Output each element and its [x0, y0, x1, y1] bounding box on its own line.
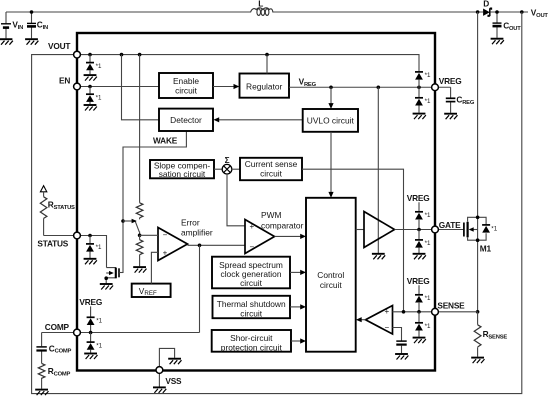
ground for CREG [444, 114, 457, 120]
svg-text:*1: *1 [425, 212, 431, 219]
capacitor CREG [446, 87, 475, 113]
wire VREG rail [289, 86, 451, 88]
svg-text:Control: Control [317, 270, 344, 280]
node sense line cs tap [402, 310, 406, 314]
pin EN [74, 83, 81, 90]
resistor divider lower [136, 235, 143, 266]
svg-text:*1: *1 [425, 323, 431, 330]
svg-text:VOUT: VOUT [48, 41, 70, 51]
wire COMP net [42, 332, 200, 334]
svg-text:*1: *1 [425, 240, 431, 247]
node rail regulator tap [265, 53, 269, 57]
svg-text:circuit: circuit [240, 308, 263, 318]
wire PWM output to control arrow [275, 234, 307, 239]
svg-text:Σ: Σ [225, 155, 230, 165]
node diode-L junction [476, 10, 480, 14]
wire error amp output to PWM minus [188, 244, 246, 246]
node rail VOUT esd tap [88, 53, 92, 57]
ground for SENSE esd [413, 338, 426, 344]
svg-text:*1: *1 [96, 244, 102, 251]
svg-text:RSTATUS: RSTATUS [48, 199, 75, 210]
wire UVLO to control arrow [328, 132, 333, 198]
wire current sense to SENSE pin line [302, 169, 404, 312]
svg-text:COUT: COUT [503, 20, 521, 31]
wire STATUS net to fet drain [44, 236, 107, 268]
ground for COMP esd [84, 354, 97, 360]
node VREG driver tap [377, 85, 381, 89]
svg-text:*1: *1 [96, 342, 102, 349]
wire sigma to PWM plus input [227, 174, 245, 226]
node VREG clamp tap [417, 85, 421, 89]
pin STATUS [74, 232, 81, 239]
svg-text:VREG: VREG [407, 193, 430, 203]
diode STATUS esd with *1 [86, 236, 102, 259]
resistor RCOMP [38, 363, 70, 388]
svg-text:circuit: circuit [175, 86, 198, 96]
wire VREG to UVLO arrow [328, 87, 333, 109]
svg-text:*1: *1 [425, 98, 431, 105]
node COUT junction [495, 10, 499, 14]
node SENSE esd tap [417, 310, 421, 314]
ground for RCOMP [35, 390, 48, 396]
block spread spectrum clock generation circuit [212, 257, 290, 289]
wire divider drop [139, 55, 141, 203]
svg-text:circuit: circuit [260, 169, 283, 179]
svg-text:*1: *1 [96, 63, 102, 70]
capacitor CIN [27, 12, 48, 38]
node M1 source [476, 238, 480, 242]
svg-text:circuit: circuit [240, 278, 263, 288]
diode COMP esd upper with *1 [87, 306, 103, 332]
block control circuit [306, 198, 356, 352]
pin VREG [432, 84, 439, 91]
wire top input rail [6, 11, 528, 13]
capacitor COUT [493, 12, 522, 38]
transistor M1 [435, 217, 492, 253]
ground for STATUS esd [84, 259, 97, 265]
svg-text:Regulator: Regulator [246, 82, 283, 92]
svg-text:*1: *1 [491, 225, 497, 232]
ground for RSENSE [471, 358, 484, 364]
wire WAKE switch control arrow [123, 220, 132, 222]
diode VOUT esd with *1 [86, 55, 102, 75]
pin VSS [156, 367, 163, 374]
op-amp gate driver [364, 212, 395, 248]
svg-text:UVLO circuit: UVLO circuit [307, 115, 355, 125]
svg-text:VSS: VSS [165, 376, 182, 386]
ground for CIN [25, 39, 38, 45]
ground for divider [133, 267, 146, 273]
svg-text:WAKE: WAKE [153, 136, 178, 146]
node rail detector tap [120, 53, 124, 57]
block detector [159, 109, 213, 131]
ground for EN esd [84, 105, 97, 111]
inductor L [251, 0, 273, 15]
IC package outline [77, 33, 435, 371]
svg-text:GATE: GATE [439, 220, 461, 230]
svg-text:*1: *1 [425, 295, 431, 302]
node VREG UVLO tap [329, 85, 333, 89]
op-amp PWM comparator [245, 210, 304, 253]
node M1 drain [476, 216, 480, 220]
node RSENSE junction [476, 310, 480, 314]
ground for GATE esd [413, 254, 426, 259]
node STATUS esd tap [88, 234, 92, 238]
node status fet source [104, 276, 108, 280]
svg-text:+: + [163, 249, 168, 258]
node sigma summer [222, 155, 232, 174]
diode EN esd with *1 [86, 87, 102, 105]
diode VREG esd lower with *1 [415, 87, 431, 113]
diode GATE esd lower with *1 [415, 230, 431, 254]
diode COMP esd lower with *1 [87, 333, 103, 353]
svg-text:EN: EN [59, 76, 70, 86]
wire regulator to VOUT rail [266, 55, 268, 74]
wire control to driver [356, 229, 364, 231]
ground for VSS internal [168, 359, 181, 365]
wire shor to control arrow [291, 338, 306, 343]
pin SENSE [432, 308, 439, 315]
svg-text:L: L [258, 0, 263, 8]
svg-text:−: − [249, 243, 254, 252]
wire UVLO to detector arrow [213, 117, 302, 122]
op-amp sense comparator [366, 306, 393, 335]
node rail divider tap [138, 53, 142, 57]
block enable circuit [159, 73, 213, 98]
svg-text:CREG: CREG [456, 95, 474, 106]
svg-text:*1: *1 [96, 95, 102, 102]
ground for COUT [491, 39, 504, 45]
node COMP esd tap [89, 331, 93, 335]
svg-text:*1: *1 [425, 72, 431, 79]
svg-text:+: + [384, 307, 389, 316]
transistor status output fet [106, 268, 123, 284]
block regulator [240, 74, 290, 98]
ground for status fet [100, 284, 113, 290]
block slope compensation circuit [150, 160, 214, 179]
svg-text:PWM: PWM [261, 210, 281, 220]
diode SENSE esd upper with *1 [415, 285, 431, 312]
wire EN to enable circuit [80, 86, 159, 88]
svg-text:RCOMP: RCOMP [48, 366, 71, 377]
pin VOUT [74, 51, 81, 58]
svg-text:D: D [483, 0, 489, 9]
svg-text:*1: *1 [96, 318, 102, 325]
svg-text:Detector: Detector [170, 115, 202, 125]
block VREF [132, 284, 171, 297]
switch slope blade [135, 218, 140, 236]
node VOUT output [520, 10, 524, 14]
ground for VSS external [153, 387, 166, 393]
wire WAKE from detector to switch and status fet gate [120, 131, 186, 273]
wire VOUT rail to detector [122, 55, 160, 120]
diode M1 body with *1 [478, 217, 498, 240]
ground for driver [372, 254, 385, 259]
svg-text:comparator: comparator [261, 220, 304, 230]
wire VREF to error amp plus [151, 252, 158, 283]
pin GATE [432, 226, 439, 233]
wire FB to error amp [140, 234, 158, 236]
svg-text:COMP: COMP [45, 322, 70, 332]
block thermal shutdown circuit [213, 296, 291, 319]
wire sigma to current sense [231, 168, 240, 170]
pin COMP [74, 329, 81, 336]
diode GATE esd upper with *1 [415, 202, 431, 229]
wire slope to sigma [214, 168, 223, 170]
svg-text:CIN: CIN [37, 20, 48, 31]
wire sense comp output to control arrow [356, 317, 366, 322]
svg-text:Error: Error [181, 218, 200, 228]
svg-text:VIN: VIN [12, 20, 23, 31]
wire thermal to control arrow [290, 304, 306, 309]
wire sense comp minus to cap [393, 328, 402, 341]
block short-circuit protection circuit [212, 330, 291, 352]
svg-text:STATUS: STATUS [37, 238, 68, 248]
wire enable to regulator arrow [213, 84, 239, 89]
svg-text:SENSE: SENSE [437, 300, 465, 310]
diode VREG esd upper with *1 [415, 72, 431, 87]
svg-text:CCOMP: CCOMP [49, 343, 72, 354]
svg-text:VREG: VREG [407, 276, 430, 286]
wire M1 drain/source chain from rail to sense [477, 12, 479, 312]
node FB [138, 234, 142, 238]
wire VSS internal ground [159, 348, 174, 370]
wire internal VOUT rail to VREG clamp [77, 55, 419, 72]
svg-text:circuit: circuit [320, 280, 343, 290]
wire driver power rail [377, 87, 379, 253]
ground for VIN [0, 39, 13, 45]
wire driver to GATE pin [395, 229, 436, 231]
wire VSS external [158, 370, 160, 387]
resistor RSENSE [474, 312, 507, 357]
ground for VREG esd [413, 114, 426, 120]
capacitor CCOMP [36, 333, 71, 364]
node WAKE switch tap [121, 219, 125, 223]
wire spread spectrum to control arrow [290, 270, 306, 275]
svg-text:amplifier: amplifier [181, 228, 213, 238]
ground for sense ref cap [395, 354, 408, 360]
block current sense circuit [240, 158, 302, 180]
node EN esd tap [88, 85, 92, 89]
svg-text:−: − [163, 231, 168, 240]
svg-text:+: + [249, 222, 254, 231]
node error amp output [198, 244, 202, 248]
block UVLO circuit [303, 109, 358, 132]
svg-text:VREG: VREG [439, 76, 462, 86]
node GATE esd tap [417, 228, 421, 232]
svg-text:VOUT: VOUT [531, 8, 549, 19]
wire sense comp plus to SENSE pin [393, 311, 478, 313]
svg-text:VREG: VREG [299, 76, 317, 87]
svg-text:sation circuit: sation circuit [159, 169, 206, 179]
resistor divider upper (trimmed) [136, 203, 143, 218]
svg-text:−: − [384, 323, 389, 332]
wire error amp output to COMP [199, 245, 201, 332]
svg-text:protection circuit: protection circuit [221, 342, 283, 352]
capacitor sense ref [396, 341, 406, 353]
battery VIN [1, 12, 23, 38]
svg-text:VREG: VREG [79, 297, 102, 307]
svg-text:M1: M1 [480, 244, 492, 254]
node VIN rail junction [30, 10, 34, 14]
diode SENSE esd lower with *1 [415, 312, 431, 337]
resistor RSTATUS with pull-up arrow [40, 186, 75, 236]
op-amp error amplifier [158, 218, 213, 261]
ground for VOUT esd [84, 75, 97, 81]
svg-text:RSENSE: RSENSE [483, 329, 508, 340]
diode D (schottky) [483, 0, 491, 16]
